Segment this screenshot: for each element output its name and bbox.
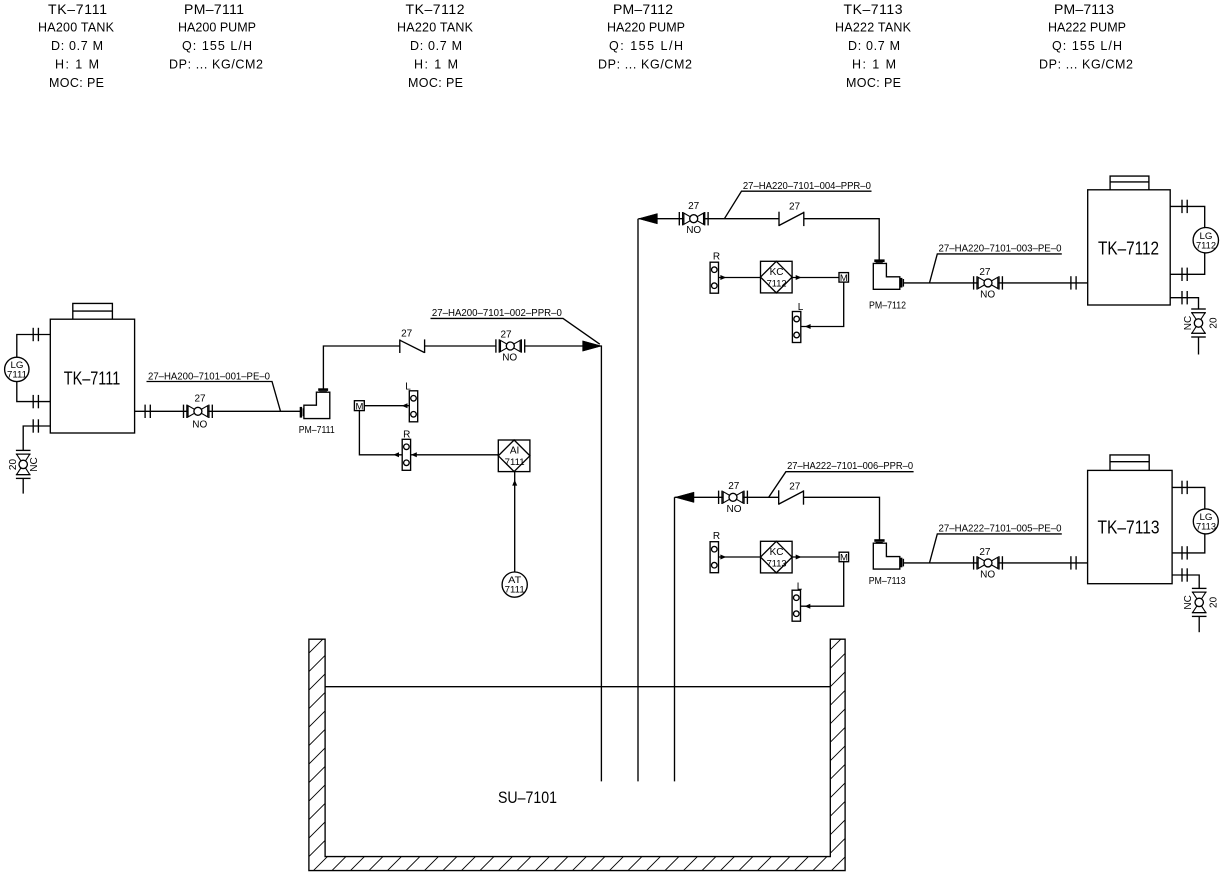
svg-text:TK–7113: TK–7113 [1098, 518, 1160, 538]
wire signal KC-7112 to M2 [792, 277, 839, 279]
svg-text:27: 27 [979, 547, 991, 558]
svg-text:LG: LG [11, 360, 24, 370]
svg-text:PM–7113: PM–7113 [869, 575, 906, 587]
wire pipe 006 from valve to hose [675, 496, 779, 498]
wire pipe 003 pump to tank TK-7112 [904, 282, 1088, 284]
terminal box L1 [409, 391, 417, 422]
wire pipe 006 hose to pump riser [804, 497, 880, 540]
svg-text:HA220 TANK: HA220 TANK [397, 20, 474, 34]
svg-text:TK–7113: TK–7113 [844, 1, 903, 17]
union on line 005 at tank [1071, 556, 1076, 569]
terminal box R1 [402, 439, 410, 470]
svg-text:PM–7112: PM–7112 [869, 300, 906, 312]
union on TK-7112 nozzle N2 [1182, 268, 1187, 281]
svg-text:AT: AT [508, 575, 522, 585]
svg-text:7112: 7112 [1196, 240, 1216, 250]
svg-text:L: L [798, 302, 804, 313]
valve 27 NO on line 004 [679, 212, 708, 225]
svg-text:27–HA220–7101–004–PPR–0: 27–HA220–7101–004–PPR–0 [743, 180, 871, 192]
svg-text:H: 1 M: H: 1 M [852, 57, 896, 71]
wire pipe 004 from valve to hose [638, 218, 778, 220]
wire signal M1 down to R1 [359, 411, 402, 455]
svg-text:R: R [403, 430, 410, 441]
wire nozzle N1 line to level gauge [17, 335, 51, 358]
svg-text:PM–7111: PM–7111 [184, 1, 244, 17]
flexible hose 27 on line 004 [779, 212, 804, 226]
svg-text:27: 27 [688, 201, 700, 212]
small arrow R2 to KC wire [720, 275, 726, 280]
union on TK-7112 nozzle N1 [1182, 200, 1187, 213]
M3 motor box [839, 552, 849, 563]
wire pipe 002 to sump dip leg [525, 346, 602, 781]
svg-text:DP: ... KG/CM2: DP: ... KG/CM2 [169, 57, 263, 71]
svg-text:PM–7112: PM–7112 [613, 1, 673, 17]
svg-text:TK–7111: TK–7111 [48, 1, 107, 17]
wire nozzle line to LG-7113 [1172, 487, 1205, 509]
union on nozzle N1 [33, 328, 38, 341]
terminal box L3 [792, 590, 800, 621]
svg-text:20: 20 [1209, 596, 1220, 608]
small arrow on M1-R1 wire [393, 452, 399, 457]
union on TK-7113 nozzle N3 [1182, 568, 1187, 581]
header PM-7111 pump data [169, 1, 263, 71]
svg-text:7111: 7111 [505, 457, 525, 468]
svg-text:KC: KC [770, 547, 784, 558]
wire leader line label 003 [930, 254, 1062, 283]
wire pipe 004 hose to pump riser [804, 219, 879, 260]
flow arrow into sump leg 006 [675, 492, 694, 502]
tank TK-7111 shell [50, 319, 134, 433]
small arrow into L3 [805, 604, 811, 609]
tank TK-7112 lid [1110, 176, 1149, 190]
svg-text:27: 27 [789, 481, 801, 492]
small arrow into L1 [402, 403, 408, 408]
flexible hose 27 on line 006 [779, 490, 804, 504]
union on TK-7113 nozzle N2 [1182, 546, 1187, 559]
tank TK-7112 shell [1088, 190, 1171, 305]
header TK-7113 tank data [835, 1, 912, 90]
wire LG-7112 to nozzle N2 [1170, 253, 1205, 274]
svg-text:R: R [713, 531, 720, 542]
header PM-7113 pump data [1039, 1, 1133, 71]
valve 27 NO on line 003 [974, 276, 1003, 289]
drain valve NC 20 of TK-7113 [1192, 588, 1207, 616]
level gauge LG-7112 [1193, 228, 1218, 253]
union on TK-7113 nozzle N1 [1182, 481, 1187, 494]
flexible hose 27 on line 002 [400, 339, 425, 353]
svg-text:NC: NC [1183, 595, 1194, 609]
svg-text:27–HA220–7101–003–PE–0: 27–HA220–7101–003–PE–0 [939, 243, 1062, 255]
header TK-7111 tank data [38, 1, 115, 90]
terminal box R2 [710, 262, 718, 293]
wire leader line label 001 [147, 382, 281, 412]
svg-text:27–HA200–7101–002–PPR–0: 27–HA200–7101–002–PPR–0 [432, 307, 562, 319]
flow arrow into sump leg 002 [583, 341, 602, 351]
wire pipe 004 sump dip leg [637, 219, 639, 782]
interlock KC-7113 [761, 541, 793, 573]
svg-text:M: M [840, 273, 848, 284]
terminal box R3 [710, 542, 718, 573]
svg-text:MOC: PE: MOC: PE [846, 76, 901, 90]
svg-text:LG: LG [1200, 231, 1213, 241]
terminal box L2 [792, 312, 800, 343]
union on line 003 at tank [1071, 276, 1076, 289]
wire drain tail below valve [22, 479, 24, 494]
svg-text:M: M [840, 553, 848, 564]
svg-text:20: 20 [8, 459, 19, 471]
analyzer transmitter AT-7111 [502, 572, 527, 597]
small arrow on AI-R1 wire [411, 452, 417, 457]
drain valve NC 20 of TK-7111 [16, 450, 31, 478]
small arrow KC to M3 wire [796, 555, 802, 560]
flow arrow into sump leg 004 [638, 214, 657, 224]
small arrow KC to M2 wire [796, 275, 802, 280]
valve 27 NO on line 006 [719, 491, 748, 504]
svg-text:NC: NC [1183, 316, 1194, 330]
union on nozzle N3 [33, 419, 38, 432]
wire nozzle N3 drain [1172, 575, 1199, 588]
svg-text:D: 0.7 M: D: 0.7 M [848, 39, 900, 53]
svg-text:R: R [713, 252, 720, 263]
svg-text:7111: 7111 [7, 370, 27, 380]
svg-text:TK–7112: TK–7112 [406, 1, 465, 17]
svg-text:27: 27 [401, 329, 413, 340]
svg-text:DP: ... KG/CM2: DP: ... KG/CM2 [598, 57, 692, 71]
wire signal AI-7111 to R1 [411, 454, 499, 456]
small arrow into L2 [805, 324, 811, 329]
svg-text:27: 27 [194, 394, 206, 405]
svg-text:NO: NO [502, 352, 517, 363]
valve 27 NO on line 005 [974, 556, 1003, 569]
svg-text:27–HA222–7101–006–PPR–0: 27–HA222–7101–006–PPR–0 [787, 460, 913, 472]
wire signal M2 down to L2 [801, 282, 844, 326]
svg-text:HA200 TANK: HA200 TANK [38, 20, 115, 34]
svg-text:NO: NO [980, 570, 995, 581]
svg-text:L: L [405, 381, 411, 392]
M1 motor box [354, 401, 364, 413]
svg-text:27: 27 [500, 330, 512, 341]
svg-text:27–HA200–7101–001–PE–0: 27–HA200–7101–001–PE–0 [148, 371, 270, 383]
wire pump discharge riser [323, 346, 399, 389]
svg-text:27: 27 [979, 267, 991, 278]
wire nozzle N3 drain [1170, 298, 1198, 309]
wire pipe 006 sump dip leg [674, 497, 676, 781]
svg-text:H: 1 M: H: 1 M [414, 57, 458, 71]
svg-text:7112: 7112 [767, 278, 787, 289]
tank TK-7111 lid [73, 303, 113, 319]
wire signal R2 to KC-7112 [718, 277, 761, 279]
wire pipe 005 pump to tank TK-7113 [904, 562, 1088, 564]
pump PM-7111 [301, 390, 330, 419]
svg-text:7111: 7111 [505, 585, 525, 595]
analyzer interlock AI-7111 [498, 440, 530, 472]
svg-text:27: 27 [789, 202, 801, 213]
wire leader line label 004 [724, 191, 871, 219]
svg-text:PM–7113: PM–7113 [1054, 1, 1114, 17]
svg-text:Q: 155 L/H: Q: 155 L/H [182, 39, 252, 53]
svg-text:7113: 7113 [1196, 522, 1216, 532]
union on TK-7112 nozzle N3 [1182, 291, 1187, 304]
wire pipe 002 between hose and valve [425, 345, 497, 347]
valve 27 NO on line 001 [184, 405, 213, 418]
wire nozzle line to LG-7112 [1170, 206, 1205, 227]
svg-text:M: M [355, 401, 363, 412]
wire tank outlet pipe to pump PM-7111 [135, 410, 301, 412]
svg-text:NO: NO [686, 225, 701, 236]
wire signal M1 to L1 [364, 405, 409, 407]
svg-text:NO: NO [192, 419, 207, 430]
svg-text:AI: AI [510, 446, 519, 457]
pump PM-7112 [873, 261, 903, 290]
svg-text:HA222 TANK: HA222 TANK [835, 20, 912, 34]
wire LG-7113 to nozzle N2 [1172, 534, 1205, 553]
svg-text:Q: 155 L/H: Q: 155 L/H [1052, 39, 1122, 53]
svg-text:HA200 PUMP: HA200 PUMP [178, 20, 256, 34]
wire leader line label 002 [431, 318, 600, 344]
tank TK-7113 shell [1088, 470, 1173, 583]
svg-text:KC: KC [770, 267, 784, 278]
wire nozzle N2 line from level gauge [17, 382, 51, 402]
pump PM-7113 [873, 541, 903, 570]
small arrow up on AT wire [512, 480, 517, 486]
svg-text:LG: LG [1200, 512, 1213, 522]
sump liquid level line [325, 686, 830, 688]
svg-text:HA220 PUMP: HA220 PUMP [607, 20, 685, 34]
svg-text:TK–7112: TK–7112 [1098, 239, 1159, 259]
svg-text:MOC: PE: MOC: PE [49, 76, 104, 90]
wire leader line label 005 [930, 534, 1062, 563]
header TK-7112 tank data [397, 1, 474, 90]
svg-text:PM–7111: PM–7111 [299, 424, 335, 436]
union on nozzle N2 [33, 395, 38, 408]
svg-text:27–HA222–7101–005–PE–0: 27–HA222–7101–005–PE–0 [939, 523, 1062, 535]
wire signal R3 to KC-7113 [718, 556, 761, 558]
union on tank outlet [145, 405, 150, 418]
level gauge LG-7111 [5, 357, 29, 381]
svg-text:DP: ... KG/CM2: DP: ... KG/CM2 [1039, 57, 1133, 71]
wire drain tail TK-7113 [1198, 616, 1200, 632]
wire leader line label 006 [769, 472, 914, 498]
wire nozzle N3 drain line [23, 426, 50, 450]
svg-text:NO: NO [980, 290, 995, 301]
svg-text:H: 1 M: H: 1 M [55, 57, 99, 71]
header PM-7112 pump data [598, 1, 692, 71]
svg-text:MOC: PE: MOC: PE [408, 76, 463, 90]
drain valve NC 20 of TK-7112 [1191, 309, 1206, 337]
small arrow R3 to KC wire [720, 555, 726, 560]
level gauge LG-7113 [1193, 509, 1218, 534]
svg-text:7113: 7113 [767, 558, 787, 569]
svg-text:HA222 PUMP: HA222 PUMP [1048, 20, 1126, 34]
wire drain tail TK-7112 [1198, 337, 1200, 355]
svg-text:D: 0.7 M: D: 0.7 M [410, 39, 462, 53]
sump SU-7101 basin walls [309, 639, 845, 870]
svg-text:L: L [797, 582, 803, 593]
wire signal KC-7113 to M3 [792, 556, 839, 558]
M2 motor box [839, 273, 849, 284]
svg-text:SU–7101: SU–7101 [498, 788, 557, 807]
valve 27 NO on line 002 [496, 339, 525, 352]
svg-text:27: 27 [728, 481, 740, 492]
svg-text:NC: NC [29, 457, 40, 471]
svg-text:D: 0.7 M: D: 0.7 M [51, 39, 103, 53]
wire signal M3 down to L3 [800, 561, 843, 606]
wire signal AT-7111 to AI-7111 [514, 471, 516, 572]
tank TK-7113 lid [1110, 455, 1149, 471]
interlock KC-7112 [761, 261, 793, 293]
svg-text:TK–7111: TK–7111 [64, 369, 121, 389]
svg-text:20: 20 [1209, 317, 1220, 329]
svg-text:NO: NO [727, 504, 742, 515]
